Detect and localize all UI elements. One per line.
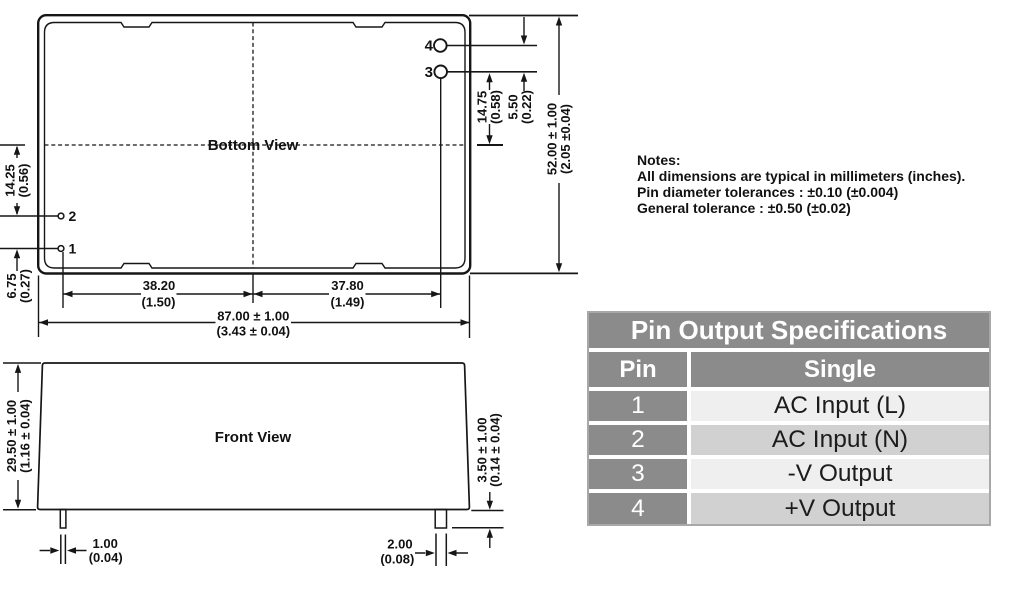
svg-text:37.80: 37.80 xyxy=(331,278,364,293)
svg-text:(1.16 ± 0.04): (1.16 ± 0.04) xyxy=(17,399,32,473)
front pin left xyxy=(60,510,66,529)
svg-text:(2.05 ±0.04): (2.05 ±0.04) xyxy=(558,104,573,174)
pin 1 xyxy=(58,246,64,252)
pin 3 leader line xyxy=(447,71,537,73)
horizontal centerline xyxy=(45,144,466,146)
table title row xyxy=(589,313,989,348)
svg-text:(1.49): (1.49) xyxy=(331,295,365,310)
svg-text:(0.14 ± 0.04): (0.14 ± 0.04) xyxy=(488,413,503,487)
dim 14.25 text xyxy=(3,164,31,198)
svg-text:(0.04): (0.04) xyxy=(89,550,123,565)
dim 14.75 xyxy=(486,73,492,144)
pin 4 leader line xyxy=(447,45,537,47)
notes text block xyxy=(637,152,965,217)
dim 5.50 text xyxy=(506,90,534,124)
front pin right xyxy=(435,510,446,529)
table header row xyxy=(589,352,989,387)
pin 3 extension line xyxy=(440,79,442,309)
dim 14.25 arrows xyxy=(14,146,20,215)
table row pin 3 xyxy=(589,459,989,489)
dim 5.50 xyxy=(521,17,527,91)
3.50 dim lower extension xyxy=(452,527,504,529)
dim 29.50 arrows xyxy=(15,364,21,509)
svg-text:87.00 ± 1.00: 87.00 ± 1.00 xyxy=(217,309,289,324)
dim 52.00 text xyxy=(545,103,573,175)
centerline right tick xyxy=(477,144,503,146)
svg-text:2: 2 xyxy=(69,208,77,224)
dim 52.00 xyxy=(556,17,562,273)
svg-text:(0.27): (0.27) xyxy=(17,269,32,303)
bottom view inner outline with notches xyxy=(45,23,466,269)
52 dim top extension xyxy=(469,15,578,17)
pin 2 leader line xyxy=(0,215,58,217)
vertical centerline xyxy=(252,23,254,269)
dim 14.75 text xyxy=(475,90,503,124)
svg-text:(1.50): (1.50) xyxy=(142,295,176,310)
bottom view outer case outline xyxy=(38,15,470,273)
29.50 dim top tick xyxy=(3,362,41,364)
dim 3.50 arrows xyxy=(487,492,493,548)
pin 1 leader line xyxy=(0,248,58,250)
pin 2 xyxy=(58,213,64,219)
centerline left tick xyxy=(0,144,25,146)
dim 87.00 xyxy=(39,319,470,325)
dim 37.80 xyxy=(254,291,441,297)
87 dim right extension xyxy=(469,276,471,339)
svg-text:(0.58): (0.58) xyxy=(488,90,503,124)
52 dim bottom extension xyxy=(470,272,578,274)
3.50 dim upper extension xyxy=(471,510,503,512)
svg-text:(3.43 ± 0.04): (3.43 ± 0.04) xyxy=(216,324,290,339)
svg-text:4: 4 xyxy=(425,38,434,55)
svg-text:Front View: Front View xyxy=(215,429,292,446)
dim 1.00 arrows xyxy=(40,547,87,553)
svg-text:(0.08): (0.08) xyxy=(380,552,414,567)
pin 3 xyxy=(434,66,447,79)
dim 3.50 text xyxy=(474,413,502,487)
87 dim left extension xyxy=(38,276,40,338)
svg-text:(0.22): (0.22) xyxy=(519,90,534,124)
dim 29.50 text xyxy=(4,399,32,473)
1.00 dim extension lines xyxy=(60,535,62,565)
pin output specifications table xyxy=(587,311,991,526)
dim 38.20 xyxy=(64,291,253,297)
2.00 dim extension lines xyxy=(435,534,437,567)
front view body xyxy=(38,363,470,510)
dim 6.75 arrow xyxy=(14,249,20,271)
pin 4 xyxy=(434,39,447,52)
dim 6.75 text xyxy=(4,269,32,303)
svg-text:1: 1 xyxy=(69,241,77,257)
svg-text:2.00: 2.00 xyxy=(387,537,412,552)
dim 2.00 arrows xyxy=(415,550,468,556)
centerline bottom extension xyxy=(252,274,254,303)
pin 1 extension line xyxy=(62,252,64,308)
svg-text:Bottom View: Bottom View xyxy=(208,137,299,154)
svg-text:38.20: 38.20 xyxy=(143,278,176,293)
29.50 dim bottom tick xyxy=(3,509,36,511)
svg-text:(0.56): (0.56) xyxy=(16,164,31,198)
table row pin 1 xyxy=(589,391,989,421)
svg-text:1.00: 1.00 xyxy=(93,536,118,551)
svg-text:3: 3 xyxy=(425,64,433,81)
table row pin 2 xyxy=(589,425,989,455)
table row pin 4 xyxy=(589,493,989,524)
